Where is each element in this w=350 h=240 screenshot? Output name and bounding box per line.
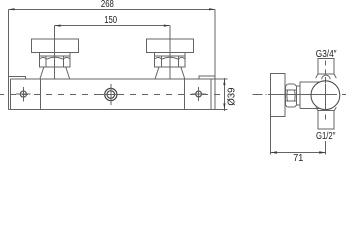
main centerline (dash-dot) [0, 93, 221, 95]
right bracket inner seam [210, 79, 212, 109]
top outlet stub G3/4 [318, 59, 334, 75]
dimension 150 line [55, 25, 170, 27]
knob 1 cap [31, 39, 78, 53]
union nut corner chamfers [285, 84, 296, 107]
svg-text:268: 268 [101, 0, 114, 10]
knob 1 skirt [40, 67, 70, 79]
dimension 150 left arrowhead [55, 25, 61, 27]
right bracket top tab [199, 76, 215, 79]
knob 2 hex facet lines [161, 56, 178, 67]
right bracket left edge [184, 79, 186, 109]
knob 2 skirt [155, 67, 185, 79]
union nut facet arcs [287, 90, 295, 101]
central boss inner circle [107, 91, 115, 99]
knob 2 center extension line [169, 26, 171, 79]
knob 1 hex facet lines [46, 56, 63, 67]
knob 2 hex nut outline [155, 53, 185, 67]
union nut side view [285, 84, 296, 107]
wall plate side view [271, 74, 285, 117]
knob 1 center extension line [54, 26, 56, 79]
svg-text:71: 71 [293, 153, 303, 162]
union nut facet line top [285, 89, 296, 91]
svg-text:G1/2″: G1/2″ [316, 131, 336, 142]
knob 1 hex nut outline [40, 53, 70, 67]
dimension 268 line [9, 8, 216, 10]
wall bracket top edge under tab [11, 78, 26, 80]
diameter 39 bottom arrowhead [223, 103, 225, 109]
svg-text:G3/4″: G3/4″ [316, 49, 337, 60]
bracket screw hole horizontal crosshair [16, 93, 30, 95]
diameter 39 dimension line [223, 78, 225, 111]
dimension 150 right arrowhead [164, 25, 170, 27]
body circle side view [311, 81, 340, 110]
dimension 71 right extension line [325, 141, 327, 155]
right bracket screw hole vertical crosshair [198, 87, 200, 101]
top stub dome [322, 75, 330, 79]
dimension 71 line [271, 152, 326, 154]
dimension 71 right arrowhead [319, 151, 326, 154]
dimension 268 right arrowhead [209, 8, 215, 10]
knob 1 hex shoulder line [40, 55, 70, 57]
svg-text:150: 150 [104, 15, 117, 26]
bottom stub left chamfer [316, 107, 318, 111]
knob 1 hex chamfer arcs [40, 57, 69, 59]
collar ring side view [300, 82, 319, 108]
diameter 39 top extension line [215, 78, 228, 80]
central boss horizontal crosshair [100, 94, 121, 96]
top stub left chamfer [316, 74, 318, 78]
right bracket screw hole horizontal crosshair [191, 93, 205, 95]
bar body outline [8, 79, 215, 109]
knob 2 hex chamfer arcs [155, 57, 184, 59]
dimension 71 left extension line [270, 117, 272, 155]
right bracket outer edge [214, 76, 216, 109]
connector tube side view [297, 86, 301, 105]
bottom stub right chamfer [334, 107, 336, 111]
knob 2 hex shoulder line [155, 55, 185, 57]
dimension 71 left arrowhead [271, 151, 278, 154]
body circle vertical crosshair [325, 83, 327, 109]
right bracket screw hole circle [196, 91, 202, 97]
dimension 268 right extension line [214, 9, 216, 76]
dimension 268 left arrowhead [9, 8, 15, 10]
bracket screw hole vertical crosshair [22, 87, 24, 101]
dimension 268 left extension line [8, 9, 10, 76]
knob 2 cap [147, 39, 194, 53]
diameter 39 bottom extension line [215, 108, 228, 110]
central boss vertical crosshair [110, 84, 112, 105]
diameter 39 top arrowhead [223, 79, 225, 85]
side view vertical centerline [325, 60, 327, 119]
svg-text:Ø39: Ø39 [227, 87, 238, 105]
top stub right chamfer [334, 74, 336, 78]
union nut facet line bottom [285, 100, 296, 102]
bracket screw hole circle [20, 91, 26, 97]
central boss outer circle [105, 88, 117, 100]
side view centerline horizontal [253, 94, 347, 96]
wall bracket outline [8, 77, 40, 110]
wall bracket inner plate line [10, 79, 12, 109]
bottom outlet stub G1/2 [318, 111, 334, 129]
